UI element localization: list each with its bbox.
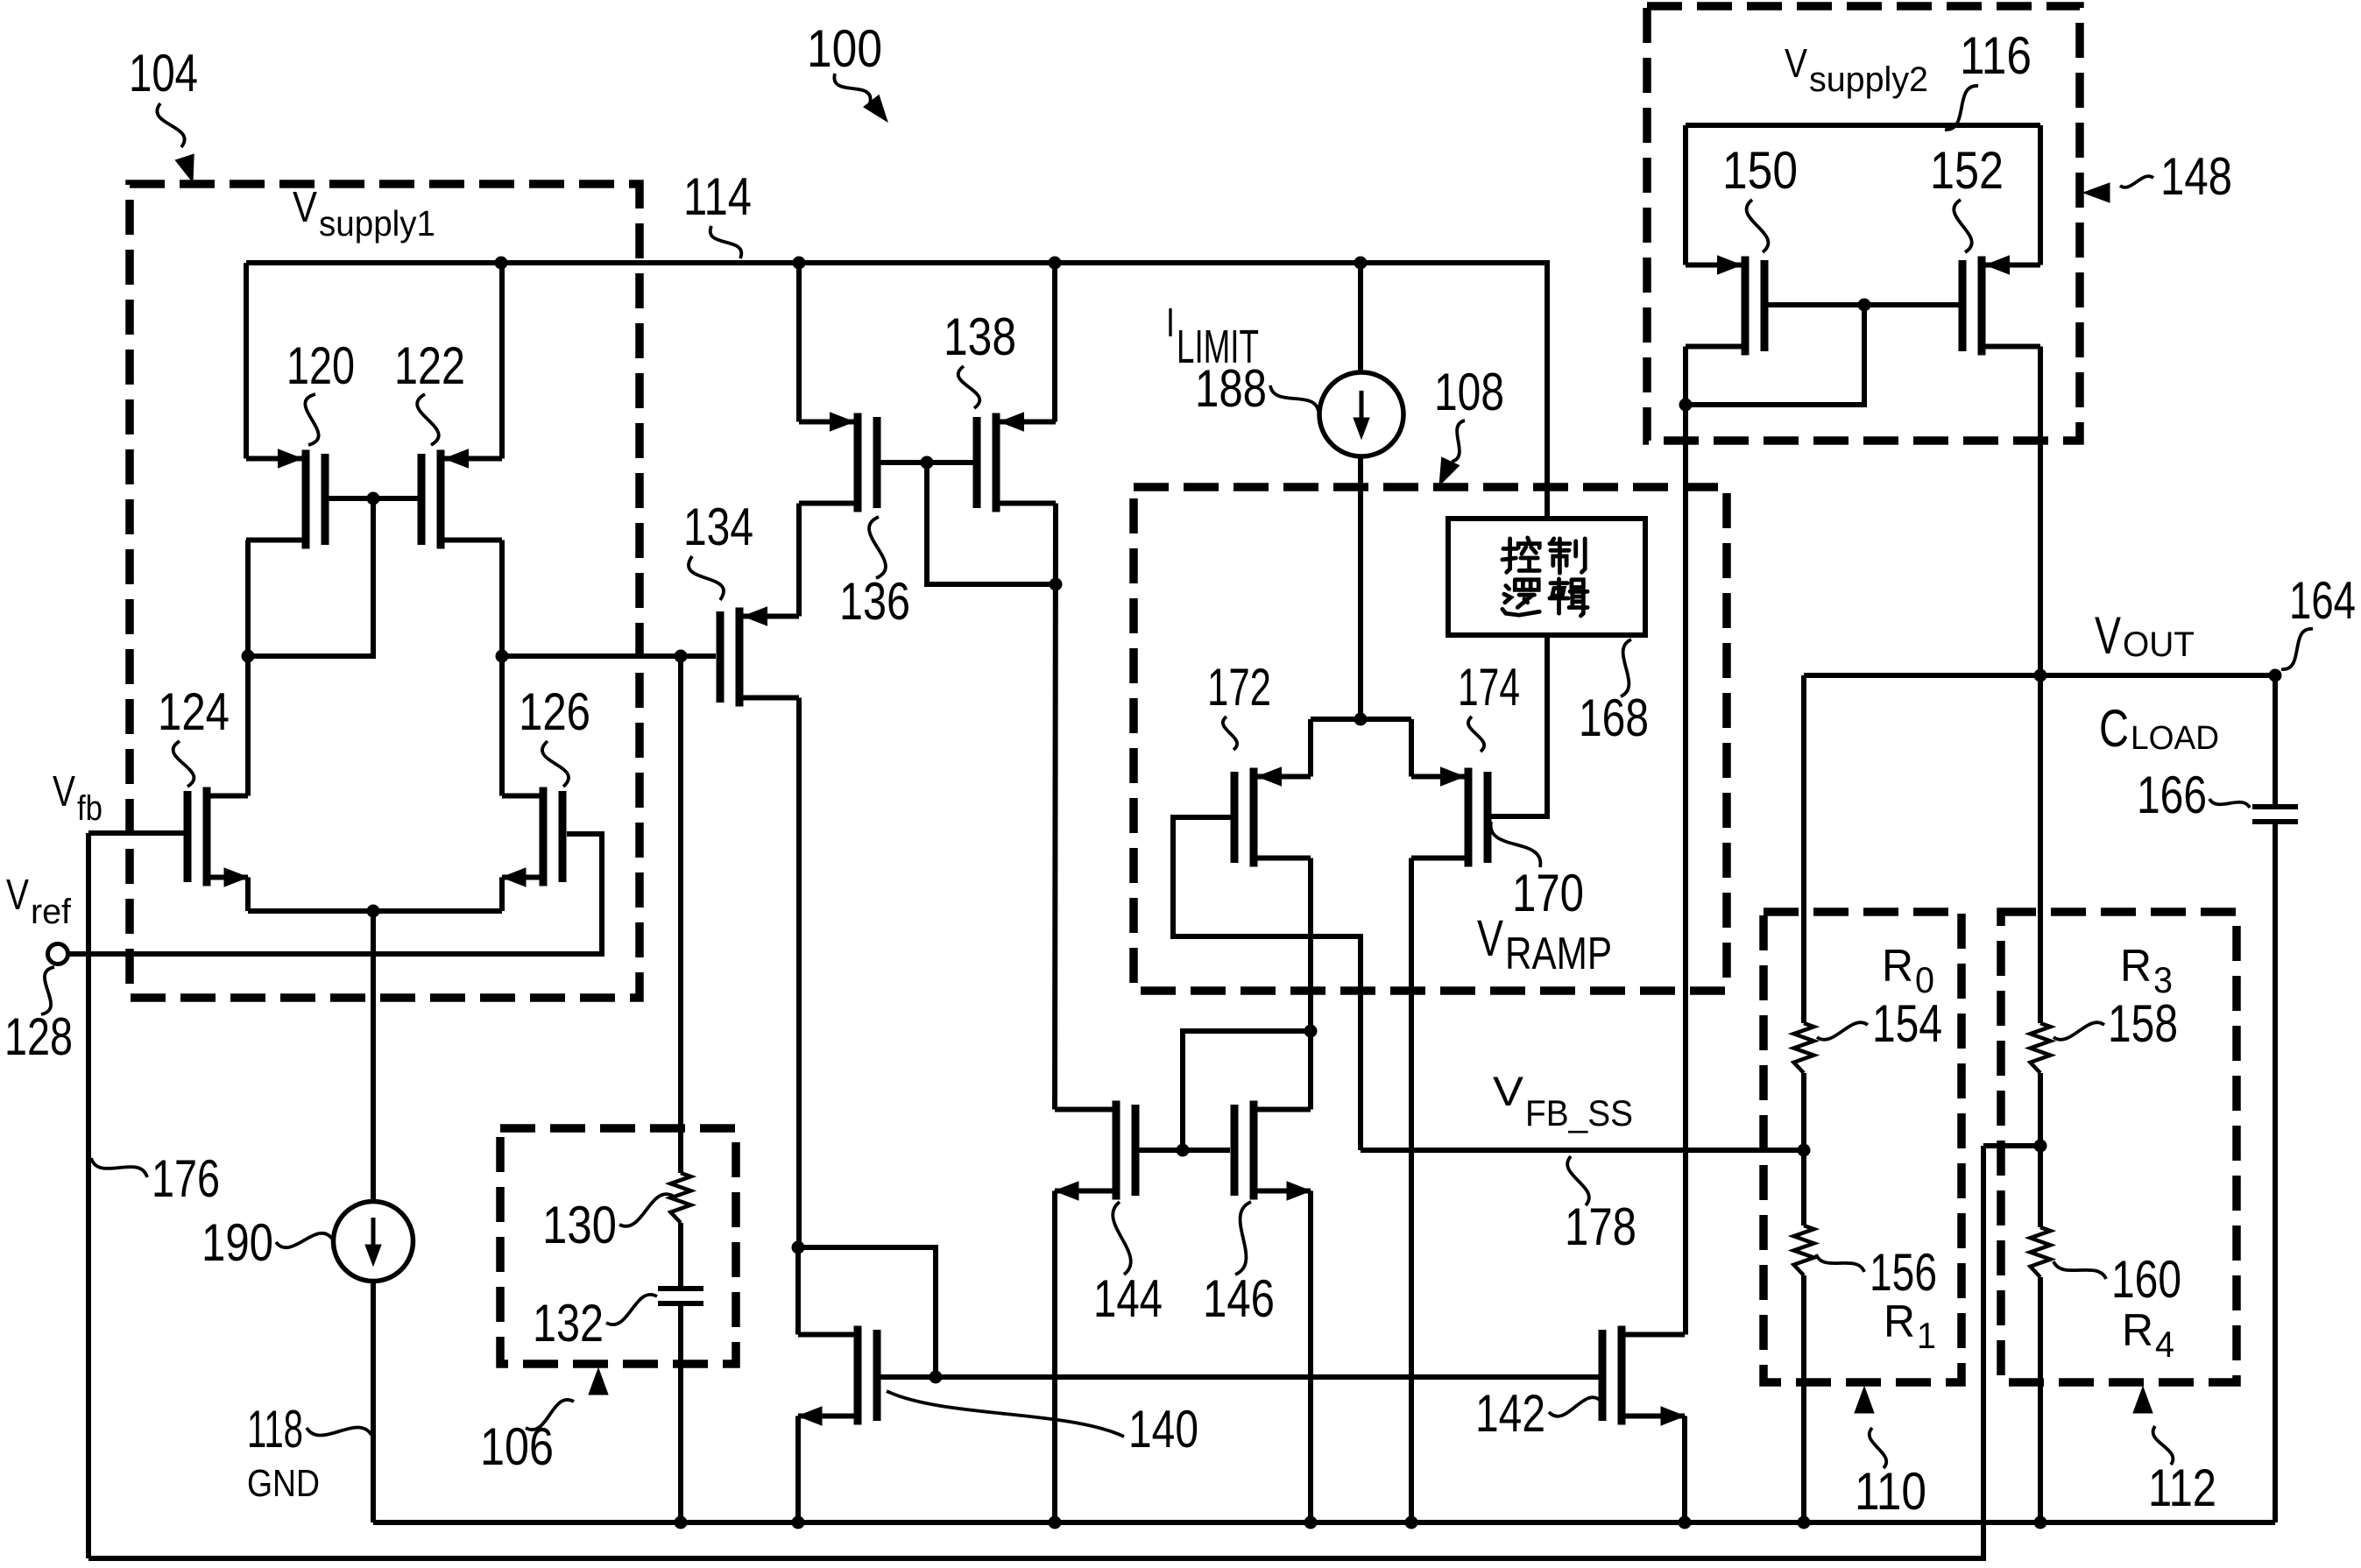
svg-text:132: 132 bbox=[533, 1294, 604, 1353]
wire 140 diode tie bbox=[798, 1247, 936, 1377]
wire 146 source to GND bbox=[1308, 1191, 1313, 1523]
node dot VRAMP/GND bbox=[1405, 1516, 1418, 1529]
svg-text:152: 152 bbox=[1930, 141, 2004, 200]
node dot gate tie bbox=[367, 492, 380, 505]
svg-text:V: V bbox=[2095, 606, 2121, 665]
node dot 138 drain diode bbox=[1050, 578, 1063, 591]
node dot 144/146 gates bbox=[1177, 1144, 1190, 1157]
wire 120 source from rail bbox=[244, 263, 249, 459]
wire rail to 138 source bbox=[1052, 263, 1057, 422]
leader 106 arrow bbox=[526, 1400, 574, 1430]
resistor R1 156 bbox=[1794, 1225, 1814, 1275]
svg-text:136: 136 bbox=[839, 572, 910, 631]
leader 170 bbox=[1491, 822, 1541, 867]
leader 172 bbox=[1223, 717, 1237, 750]
leader 124 bbox=[173, 741, 194, 787]
svg-text:1: 1 bbox=[1917, 1315, 1936, 1356]
wire Vsupply2 rail 116 bbox=[1686, 123, 2040, 128]
dashed box 106 (RC compensation module) bbox=[500, 1128, 736, 1364]
wire VFB_SS line 178 bbox=[1361, 1148, 1804, 1153]
wire 134 drain down to 140 drain bbox=[796, 698, 802, 1248]
transistor 146 (NMOS mirror diode) bbox=[1250, 1101, 1258, 1200]
leader 168 bbox=[1621, 639, 1631, 696]
svg-text:126: 126 bbox=[519, 682, 590, 741]
transistor 150 (PMOS diode) bbox=[1742, 257, 1750, 356]
svg-text:4: 4 bbox=[2155, 1324, 2174, 1365]
wire rail left drop to 150 source bbox=[1683, 125, 1688, 265]
transistor 136 (PMOS) bbox=[854, 413, 862, 512]
wire 150 drain down bbox=[1683, 347, 1688, 406]
wire 124 source to tail bbox=[245, 878, 251, 912]
wire rail to 136 source bbox=[796, 263, 802, 422]
dashed box 104 (error amplifier module) bbox=[130, 184, 640, 998]
svg-text:V: V bbox=[1493, 1068, 1524, 1114]
leader 114 bbox=[710, 226, 742, 258]
wire tail to current source 190 bbox=[371, 911, 376, 1202]
transistor 144 (NMOS mirror) bbox=[1113, 1101, 1120, 1200]
svg-text:supply1: supply1 bbox=[319, 203, 435, 244]
node dot 146 drain / 172 drain bbox=[1304, 1025, 1318, 1038]
node dot rail/136 bbox=[793, 257, 806, 270]
svg-text:168: 168 bbox=[1579, 689, 1649, 747]
wire R4 to GND bbox=[2038, 1277, 2043, 1522]
svg-text:124: 124 bbox=[158, 682, 230, 741]
svg-text:116: 116 bbox=[1960, 26, 2032, 85]
wire 140 gate line to 142 bbox=[880, 1374, 1602, 1380]
svg-text:RAMP: RAMP bbox=[1505, 929, 1612, 979]
svg-text:190: 190 bbox=[201, 1213, 273, 1272]
dashed box 108 (soft-start ramp module) bbox=[1134, 487, 1727, 991]
leader 174 bbox=[1468, 717, 1484, 752]
svg-text:154: 154 bbox=[1872, 994, 1942, 1053]
current source 188 ILIMIT bbox=[1319, 372, 1403, 456]
wire 190 to GND rail bbox=[371, 1281, 376, 1522]
svg-text:fb: fb bbox=[77, 789, 102, 828]
wire common source right drop bbox=[1409, 719, 1414, 777]
leader 140 bbox=[887, 1391, 1124, 1437]
wire 146 drain stub up bbox=[1308, 1031, 1313, 1110]
wire 140 source to GND bbox=[795, 1416, 801, 1523]
svg-text:130: 130 bbox=[542, 1196, 617, 1254]
leader 122 bbox=[417, 394, 439, 445]
node dot rail/ILIMIT bbox=[1354, 257, 1368, 270]
dashed box 110 (feedback divider R0/R1) bbox=[1764, 912, 1962, 1382]
leader 154 bbox=[1817, 1022, 1868, 1040]
wire gate tie drop bbox=[1686, 305, 1864, 405]
leader 136 bbox=[869, 517, 886, 578]
node dot amp output bbox=[496, 650, 509, 663]
leader 108 arrow bbox=[1452, 420, 1465, 462]
svg-text:128: 128 bbox=[4, 1007, 73, 1066]
wire C132 to GND bbox=[678, 1303, 683, 1522]
svg-text:178: 178 bbox=[1565, 1197, 1636, 1256]
leader 150 bbox=[1747, 200, 1769, 252]
wire 126 source to tail bbox=[499, 878, 505, 912]
wire gate tie drop to 120 drain bbox=[248, 498, 373, 656]
wire 138 drain to 144 drain bbox=[1055, 504, 1056, 1110]
leader 148 arrow bbox=[2120, 176, 2153, 187]
svg-text:104: 104 bbox=[129, 44, 198, 102]
wire VOUT to R3 bbox=[2038, 675, 2043, 1023]
leader 144 bbox=[1113, 1202, 1130, 1275]
svg-text:V: V bbox=[1477, 910, 1503, 967]
wire 150 drain long drop to 142 drain bbox=[1683, 405, 1688, 1335]
wire 134 gate node down to R130 bbox=[678, 656, 683, 1173]
svg-text:C: C bbox=[2099, 699, 2129, 758]
wire gates up to 146 drain bbox=[1183, 1031, 1311, 1150]
svg-text:146: 146 bbox=[1203, 1269, 1275, 1328]
wire 136/138 gate tie bbox=[880, 460, 973, 465]
node dot 150 drain diode bbox=[1679, 399, 1693, 412]
wire Vfb vertical 176 bbox=[86, 833, 91, 1558]
svg-text:148: 148 bbox=[2160, 147, 2232, 206]
svg-text:R: R bbox=[1882, 941, 1913, 992]
wire rail right drop to 152 source bbox=[2038, 125, 2043, 265]
node dot VOUT/CLOAD bbox=[2269, 669, 2282, 682]
node dot 140 gate bbox=[930, 1371, 943, 1384]
leader 190 bbox=[276, 1233, 332, 1247]
wire ILIMIT to 172/174 sources bbox=[1358, 456, 1363, 719]
leader 100 arrow bbox=[834, 74, 870, 103]
node dot RC/GND bbox=[675, 1516, 688, 1529]
transistor 120 (PMOS mirror left) bbox=[302, 450, 310, 549]
transistor 174 (PMOS ramp) bbox=[1465, 768, 1473, 867]
control logic block 168 (控制 逻辑) bbox=[1448, 519, 1645, 635]
svg-text:160: 160 bbox=[2111, 1250, 2181, 1309]
leader 126 bbox=[542, 741, 569, 787]
node dot 144/GND bbox=[1049, 1516, 1062, 1529]
dashed box 148 (output stage module) bbox=[1647, 6, 2080, 441]
node dot 150/152 gates bbox=[1858, 299, 1871, 312]
leader 160 bbox=[2054, 1261, 2106, 1279]
terminal circle Vref 128 bbox=[48, 944, 68, 964]
svg-text:164: 164 bbox=[2289, 571, 2356, 630]
svg-text:LOAD: LOAD bbox=[2131, 720, 2219, 757]
leader 146 bbox=[1235, 1202, 1251, 1275]
wire 172 gate to VFB_SS bbox=[1173, 817, 1361, 1150]
svg-text:156: 156 bbox=[1870, 1243, 1937, 1302]
wire tap to Vfb drop bbox=[1983, 1143, 2040, 1148]
svg-text:150: 150 bbox=[1722, 141, 1798, 200]
svg-text:FB_SS: FB_SS bbox=[1525, 1092, 1633, 1134]
node dot rail/138 bbox=[1049, 257, 1062, 270]
wire 174 drain VRAMP to GND bbox=[1409, 858, 1414, 1523]
capacitor 132 bbox=[658, 1286, 703, 1291]
transistor 138 (PMOS) bbox=[993, 413, 1000, 512]
node dot 142/GND bbox=[1679, 1516, 1692, 1529]
transistor 134 (PMOS follower) bbox=[736, 608, 744, 707]
wire VOUT line 164 bbox=[1804, 673, 2275, 678]
svg-text:GND: GND bbox=[247, 1462, 320, 1505]
node dot 134 gate / R130 branch bbox=[675, 650, 688, 663]
leader 138 bbox=[958, 366, 980, 408]
leader 132 bbox=[606, 1295, 657, 1324]
svg-text:R: R bbox=[2120, 941, 2152, 992]
svg-text:174: 174 bbox=[1458, 658, 1520, 717]
node dot R3/R4 tap bbox=[2034, 1140, 2047, 1153]
node dot tail bbox=[367, 905, 380, 918]
svg-text:R: R bbox=[2122, 1305, 2153, 1356]
leader 176 bbox=[91, 1158, 147, 1177]
node dot common source bbox=[1354, 713, 1368, 726]
wire R0 to tap bbox=[1801, 1073, 1806, 1225]
leader 134 bbox=[689, 556, 724, 600]
svg-text:V: V bbox=[6, 872, 29, 919]
transistor 142 (NMOS discharge) bbox=[1618, 1326, 1626, 1425]
svg-text:120: 120 bbox=[286, 336, 355, 395]
wire 122 source from rail bbox=[499, 263, 505, 459]
wire 142 source to GND bbox=[1682, 1416, 1687, 1523]
wire common source left drop bbox=[1308, 719, 1313, 777]
node dot 120 drain bbox=[242, 650, 255, 663]
capacitor CLOAD 166 bbox=[2252, 804, 2298, 809]
svg-text:OUT: OUT bbox=[2123, 625, 2195, 664]
leader 158 bbox=[2054, 1022, 2104, 1040]
leader 120 bbox=[305, 394, 318, 445]
leader 116 bbox=[1945, 86, 1978, 130]
wire CLOAD bottom to GND rail bbox=[2273, 822, 2278, 1522]
svg-text:supply2: supply2 bbox=[1809, 60, 1928, 99]
leader 164 bbox=[2281, 629, 2313, 669]
leader 112 arrow bbox=[2153, 1426, 2174, 1465]
wire 120 drain to 124 drain bbox=[245, 540, 251, 796]
resistor R4 160 bbox=[2031, 1227, 2051, 1277]
svg-text:188: 188 bbox=[1195, 359, 1267, 418]
wire rail to ILIMIT source bbox=[1358, 263, 1363, 373]
node dot R4/GND bbox=[2034, 1516, 2047, 1529]
svg-text:134: 134 bbox=[683, 498, 753, 556]
wire 152 drain to VOUT bbox=[2038, 347, 2043, 676]
svg-text:110: 110 bbox=[1855, 1462, 1926, 1521]
svg-text:144: 144 bbox=[1093, 1269, 1163, 1328]
leader 118 bbox=[307, 1427, 371, 1435]
svg-text:118: 118 bbox=[247, 1400, 303, 1459]
wire 144/146 gate tie bbox=[1139, 1148, 1230, 1153]
transistor 124 (NMOS input Vfb) bbox=[203, 788, 211, 886]
svg-text:108: 108 bbox=[1434, 363, 1504, 421]
wire Vsupply1 rail node 114 bbox=[246, 263, 1547, 519]
wire gates to 138 drain bbox=[927, 463, 1056, 584]
leader 152 bbox=[1954, 200, 1971, 252]
node dot VFB_SS tap bbox=[1798, 1144, 1811, 1157]
svg-text:ref: ref bbox=[31, 893, 72, 931]
transistor 122 (PMOS mirror right) bbox=[437, 450, 445, 549]
wire 172 drain down to 146 drain bbox=[1308, 858, 1313, 1032]
leader 104 arrow bbox=[157, 103, 184, 147]
node dot 134/140 drain bbox=[792, 1241, 805, 1254]
leader 130 bbox=[619, 1194, 673, 1226]
wire amp output to 134 gate bbox=[502, 653, 716, 659]
resistor R3 158 bbox=[2031, 1023, 2051, 1073]
leader 110 arrow bbox=[1870, 1428, 1887, 1468]
wire Vfb bottom line to R3/R4 tap bbox=[88, 1146, 1983, 1558]
wire gate tie 120-122 bbox=[329, 496, 418, 501]
svg-text:166: 166 bbox=[2137, 766, 2207, 824]
leader 188 bbox=[1270, 385, 1318, 412]
leader 166 bbox=[2209, 799, 2250, 808]
leader 178 bbox=[1567, 1156, 1589, 1205]
wire 126 gate to Vref bbox=[68, 834, 602, 954]
leader 128 bbox=[41, 967, 54, 1014]
svg-text:122: 122 bbox=[394, 336, 465, 395]
wire control logic to 174 gate bbox=[1491, 635, 1547, 816]
wire 122 drain to 126 drain bbox=[499, 540, 505, 796]
wire R1 to GND bbox=[1801, 1275, 1806, 1522]
wire 140 drain up bbox=[795, 1247, 801, 1335]
svg-text:114: 114 bbox=[683, 167, 752, 226]
resistor 130 bbox=[671, 1173, 691, 1223]
wire 172/174 common source bar bbox=[1311, 717, 1411, 722]
wire Vfb input bbox=[88, 830, 186, 836]
node dot 146/GND bbox=[1304, 1516, 1318, 1529]
svg-text:176: 176 bbox=[152, 1149, 220, 1208]
wire R3 to tap bbox=[2038, 1073, 2043, 1227]
transistor 152 (PMOS pass) bbox=[1978, 257, 1986, 356]
svg-text:172: 172 bbox=[1207, 658, 1271, 717]
svg-text:170: 170 bbox=[1512, 864, 1584, 922]
node dot 140/GND bbox=[792, 1516, 805, 1529]
transistor 126 (NMOS input Vref) bbox=[540, 788, 548, 886]
svg-text:138: 138 bbox=[944, 307, 1016, 366]
wire VOUT left drop to R0 bbox=[1801, 675, 1806, 1023]
wire GND rail 118 bbox=[373, 1520, 2275, 1525]
transistor 140 (NMOS diode) bbox=[854, 1326, 862, 1425]
wire 144 source to GND bbox=[1052, 1191, 1057, 1523]
wire CLOAD top bbox=[2273, 675, 2278, 807]
wire R130 to C132 bbox=[678, 1223, 683, 1289]
svg-text:I: I bbox=[1166, 300, 1175, 345]
svg-text:142: 142 bbox=[1475, 1384, 1545, 1443]
resistor R0 154 bbox=[1794, 1023, 1814, 1073]
node dot rail/122 bbox=[495, 257, 508, 270]
svg-text:140: 140 bbox=[1128, 1400, 1198, 1459]
svg-text:V: V bbox=[1785, 40, 1807, 86]
wire tail bar bbox=[248, 908, 502, 914]
transistor 172 (PMOS sample) bbox=[1250, 768, 1258, 867]
node dot 136/138 gates bbox=[921, 456, 934, 470]
node dot R1/GND bbox=[1798, 1516, 1811, 1529]
node dot VOUT/152 bbox=[2034, 669, 2047, 682]
wire 136 drain to 134 source bbox=[796, 504, 802, 617]
leader 142 bbox=[1549, 1397, 1601, 1416]
svg-text:158: 158 bbox=[2108, 994, 2178, 1053]
svg-text:R: R bbox=[1884, 1296, 1915, 1347]
leader 156 bbox=[1816, 1254, 1864, 1272]
svg-text:V: V bbox=[293, 184, 317, 231]
wire 150/152 gate tie bbox=[1768, 302, 1959, 307]
svg-text:112: 112 bbox=[2148, 1459, 2216, 1517]
svg-text:100: 100 bbox=[807, 19, 882, 78]
current source 190 (tail bias) bbox=[334, 1202, 414, 1282]
dashed box 112 (feedback divider R3/R4) bbox=[2001, 912, 2237, 1382]
svg-text:V: V bbox=[53, 768, 75, 816]
